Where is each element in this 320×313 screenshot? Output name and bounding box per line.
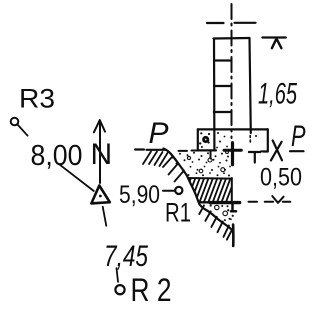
svg-text:P: P	[149, 117, 169, 150]
svg-text:7,45: 7,45	[104, 240, 148, 273]
svg-text:0,50: 0,50	[260, 164, 302, 192]
svg-text:R 2: R 2	[131, 272, 172, 308]
svg-text:P: P	[291, 120, 306, 153]
svg-text:R1: R1	[165, 198, 191, 228]
svg-text:8,00: 8,00	[31, 140, 83, 172]
svg-text:R3: R3	[19, 84, 55, 114]
svg-text:5,90: 5,90	[119, 181, 160, 209]
svg-text:1,65: 1,65	[258, 78, 297, 111]
svg-text:N: N	[91, 138, 113, 171]
